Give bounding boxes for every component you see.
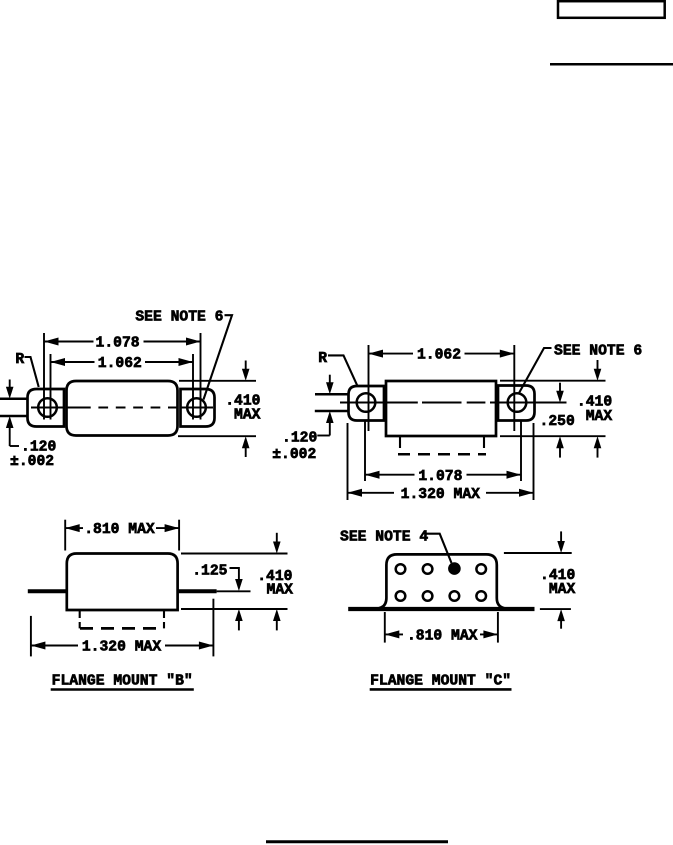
header box (top right): [558, 1, 665, 18]
svg-text:MAX: MAX: [549, 582, 576, 598]
filled terminal (note 4): [448, 562, 461, 575]
svg-text:±.002: ±.002: [10, 454, 54, 470]
extension lines dim 1.078 B: [43, 333, 45, 420]
flange edge lines left C: [315, 393, 349, 396]
svg-text:±.002: ±.002: [272, 447, 316, 463]
hole crosshair left C: [352, 401, 381, 403]
svg-text:R: R: [318, 351, 327, 367]
right mounting hole B: [187, 398, 206, 417]
body top extension line right C end: [504, 552, 572, 554]
R leader C: [328, 355, 358, 386]
svg-text:.410: .410: [577, 395, 612, 411]
centerline C top view: [340, 402, 567, 404]
right mounting ear C: [498, 386, 535, 421]
dimension .810 MAX C: [385, 629, 498, 645]
flange edge lines left B: [0, 397, 28, 400]
dimension .410 MAX B: [178, 361, 261, 458]
flange line C end view: [348, 607, 534, 611]
flange plane extension line B: [217, 590, 251, 592]
body top extension line right B: [181, 553, 288, 555]
terminal holes row 2: [396, 591, 406, 601]
left mounting hole C: [357, 393, 376, 412]
body outline C top view: [386, 381, 496, 436]
SEE NOTE 6 leader B: [204, 315, 233, 399]
svg-text:1.078: 1.078: [96, 336, 140, 352]
hidden header outline B (dashed): [80, 611, 164, 628]
svg-text:MAX: MAX: [234, 408, 261, 424]
terminal holes row 1: [396, 564, 406, 574]
dimension 1.320 MAX B: [31, 640, 214, 656]
svg-text:.810 MAX: .810 MAX: [84, 522, 155, 538]
dimension .410 MAX C end: [540, 531, 575, 628]
centerline B top view: [31, 407, 213, 409]
extension lines dim 1.078 C: [364, 420, 366, 481]
left mounting ear C: [349, 386, 385, 421]
dimension 1.078 C: [365, 469, 521, 485]
dimension 1.078 B: [44, 336, 201, 352]
svg-text:1.320 MAX: 1.320 MAX: [82, 640, 162, 656]
flange lead left B side: [28, 589, 67, 593]
dimension .410 MAX B side: [257, 533, 293, 631]
body outline B side view: [67, 554, 178, 611]
svg-text:.120: .120: [21, 439, 56, 455]
dimension .125 B: [192, 564, 242, 631]
hole crosshair right C: [502, 401, 531, 403]
dimension .250 C: [540, 383, 575, 458]
extension lines dim .810 B: [64, 520, 66, 551]
svg-text:1.078: 1.078: [418, 469, 462, 485]
svg-text:SEE NOTE 4: SEE NOTE 4: [340, 529, 428, 545]
R leader B: [25, 357, 39, 387]
dimension .410 MAX C: [577, 360, 612, 458]
body outline B top view: [67, 381, 178, 436]
hidden header below body C: [398, 436, 486, 454]
extension lines dim 1.320 C: [347, 423, 349, 500]
FLANGE MOUNT "C" caption: [370, 674, 512, 690]
right mounting hole C: [508, 393, 527, 412]
extension lines dim 1.062 B: [50, 354, 52, 420]
svg-text:.810 MAX: .810 MAX: [407, 629, 478, 645]
body bottom extension line right B: [181, 608, 288, 610]
dimension 1.320 MAX C: [348, 487, 534, 503]
extension lines dim .810 C: [384, 612, 386, 643]
svg-text:1.062: 1.062: [417, 348, 461, 364]
flange lead right B side: [178, 589, 217, 593]
flange extension line right C end: [540, 608, 571, 610]
SEE NOTE 6 leader C: [519, 348, 552, 393]
body outline C end view: [379, 554, 504, 608]
dimension .120 +-.002 B: [6, 380, 56, 471]
svg-text:MAX: MAX: [267, 583, 294, 599]
footer rule line: [266, 840, 448, 843]
dimension 1.062 C: [369, 348, 515, 364]
dimension .810 MAX B: [65, 522, 179, 538]
hole crosshair right: [181, 406, 214, 408]
right extension lines C (.410 / .250): [500, 380, 606, 382]
svg-text:SEE NOTE 6: SEE NOTE 6: [135, 309, 223, 325]
dimension 1.062 B: [51, 356, 194, 372]
svg-text:R: R: [15, 352, 24, 368]
FLANGE MOUNT "B" caption: [51, 674, 194, 690]
svg-text:1.320 MAX: 1.320 MAX: [401, 487, 481, 503]
SEE NOTE 4 leader: [425, 534, 451, 563]
extension lines dim 1.320 B: [30, 616, 32, 657]
header rule line: [550, 63, 673, 66]
right mounting ear B: [181, 389, 215, 427]
svg-text:SEE NOTE 6: SEE NOTE 6: [554, 344, 642, 360]
svg-text:1.062: 1.062: [98, 356, 142, 372]
svg-text:.250: .250: [540, 414, 575, 430]
hole crosshair left: [31, 406, 64, 408]
svg-text:MAX: MAX: [586, 409, 613, 425]
left mounting hole B: [38, 398, 57, 417]
svg-text:.120: .120: [282, 431, 317, 447]
dimension .120 +-.002 C: [272, 375, 333, 463]
extension lines dim 1.062 C: [368, 345, 370, 431]
left mounting ear B: [28, 389, 65, 427]
svg-text:.125: .125: [192, 564, 227, 580]
svg-text:FLANGE MOUNT "C": FLANGE MOUNT "C": [370, 674, 511, 690]
svg-text:FLANGE MOUNT "B": FLANGE MOUNT "B": [52, 674, 193, 690]
